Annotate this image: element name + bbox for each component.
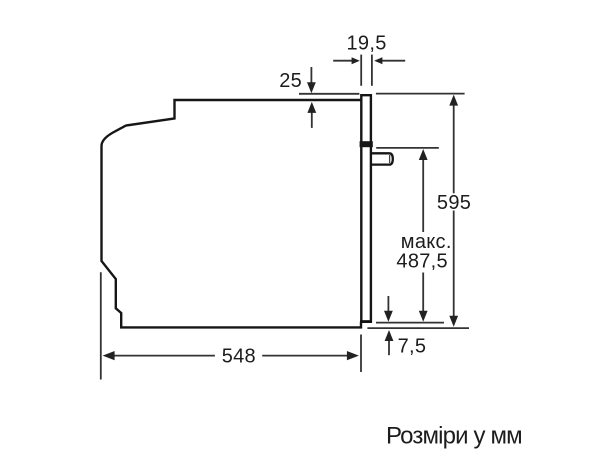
dim 19.5 left arrow (333, 57, 360, 64)
dim 487.5 line (419, 149, 428, 322)
oven body outline (102, 100, 362, 327)
extension line 548 right (360, 335, 362, 373)
extension line top-left (25 ref) (299, 93, 359, 95)
dim 548 line (103, 351, 359, 360)
svg-text:19,5: 19,5 (347, 32, 387, 54)
svg-text:487,5: 487,5 (396, 251, 448, 273)
dim 19.5 right arrow (374, 57, 405, 64)
dim 595 line (449, 95, 458, 327)
dim 7.5 down arrow (384, 296, 393, 322)
panel bottom bar (360, 320, 372, 323)
extension line 19.5 left (360, 55, 362, 86)
svg-text:Розміри у мм: Розміри у мм (386, 422, 522, 449)
front panel outline (361, 95, 371, 321)
knob end cap line (389, 155, 391, 163)
dim 7.5 up arrow (385, 330, 394, 355)
svg-text:595: 595 (437, 192, 471, 214)
extension line body bottom (line1) (376, 322, 444, 324)
dim 25 up arrow (307, 102, 316, 128)
panel divider bar (360, 141, 373, 147)
extension line knob top (487.5 ref) (376, 147, 439, 149)
extension line 548 left (100, 272, 102, 379)
extension line panel bottom (line2) (367, 327, 469, 329)
extension line 19.5 right (371, 55, 373, 86)
svg-text:25: 25 (279, 70, 302, 92)
extension line top-right (595 ref) (376, 93, 465, 95)
knob (372, 153, 393, 164)
svg-text:548: 548 (222, 346, 256, 368)
dim 25 down arrow (307, 67, 316, 93)
svg-text:7,5: 7,5 (398, 336, 427, 358)
